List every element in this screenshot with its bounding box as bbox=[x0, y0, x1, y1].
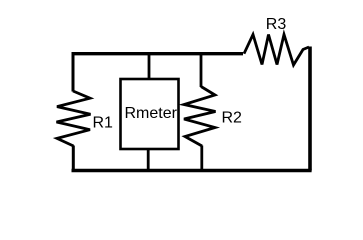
svg-text:R2: R2 bbox=[222, 109, 243, 126]
svg-text:Rmeter: Rmeter bbox=[125, 105, 178, 122]
svg-text:R3: R3 bbox=[266, 16, 287, 33]
svg-text:R1: R1 bbox=[93, 115, 114, 132]
